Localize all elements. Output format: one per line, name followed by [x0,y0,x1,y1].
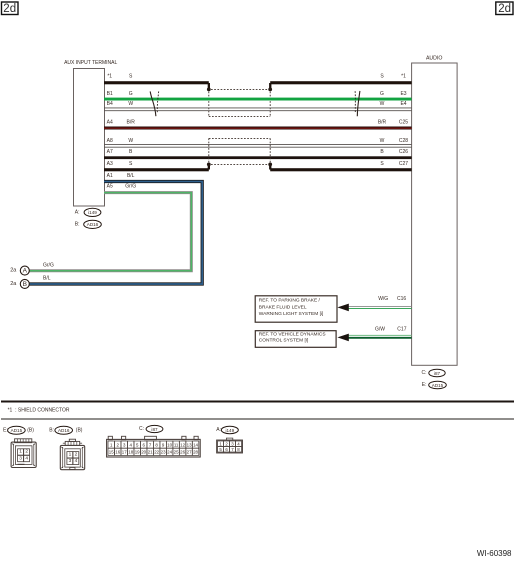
svg-text:S: S [129,161,133,167]
svg-text:4: 4 [75,458,78,464]
svg-text:A1: A1 [107,173,113,179]
svg-text:22: 22 [154,450,159,455]
svg-text:(B): (B) [27,427,34,433]
svg-text:6: 6 [142,442,145,447]
svg-text:25: 25 [174,450,179,455]
svg-text:8: 8 [237,447,240,452]
svg-text:5: 5 [219,447,222,452]
svg-text:B: B [380,149,384,155]
svg-text:B: B [129,149,133,155]
svg-text:1: 1 [110,442,113,447]
svg-text:G: G [380,91,384,97]
svg-text:2a: 2a [10,268,17,274]
svg-text:W: W [128,101,133,107]
svg-text:B:: B: [75,221,80,227]
svg-text:B:: B: [49,427,54,433]
svg-text:7: 7 [149,442,152,447]
svg-text:27: 27 [187,450,192,455]
svg-text:1: 1 [219,441,222,446]
svg-text:B/R: B/R [127,120,136,126]
svg-text:A:: A: [216,427,221,433]
svg-text:10: 10 [167,442,172,447]
svg-text:A8: A8 [107,138,113,144]
svg-text:Gr/G: Gr/G [43,262,54,268]
svg-text:A5: A5 [107,184,113,190]
svg-text:(B): (B) [76,427,83,433]
svg-text:B/L: B/L [127,173,135,179]
svg-text:A:: A: [75,209,80,215]
svg-text:4: 4 [25,455,28,461]
svg-text:C25: C25 [399,120,408,126]
svg-text:AUDIO: AUDIO [426,55,442,61]
svg-text:REF. TO VEHICLE DYNAMICS: REF. TO VEHICLE DYNAMICS [259,331,326,337]
svg-text:A7: A7 [107,149,113,155]
svg-text:WI-60398: WI-60398 [477,549,512,558]
svg-text:2: 2 [225,441,228,446]
svg-text:11: 11 [174,442,179,447]
svg-text:W: W [380,138,385,144]
svg-text:2: 2 [117,442,120,447]
svg-text:28: 28 [193,450,198,455]
svg-text:Gr/G: Gr/G [125,184,136,190]
svg-text:1: 1 [19,449,22,455]
svg-text:12: 12 [180,442,185,447]
svg-text:i87: i87 [434,371,441,376]
svg-text:15: 15 [109,450,114,455]
svg-text:7: 7 [231,447,234,452]
svg-text:A4: A4 [107,120,113,126]
svg-text:4: 4 [129,442,132,447]
svg-text:13: 13 [187,442,192,447]
svg-text:18: 18 [128,450,133,455]
svg-text:E:: E: [3,427,8,433]
svg-text:C28: C28 [399,138,408,144]
svg-text:3: 3 [69,458,72,464]
svg-text:C16: C16 [397,296,406,302]
svg-text:G/W: G/W [375,326,385,332]
svg-text:2: 2 [75,452,78,458]
svg-text:3: 3 [19,455,22,461]
svg-text:20: 20 [141,450,146,455]
svg-text:8: 8 [155,442,158,447]
svg-text:S: S [380,73,384,79]
svg-text:AD15: AD15 [432,383,444,388]
svg-text:B4: B4 [107,101,113,107]
svg-text:AD15: AD15 [11,428,23,433]
svg-text:C27: C27 [399,161,408,167]
svg-text:BRAKE FLUID LEVEL: BRAKE FLUID LEVEL [259,304,307,310]
svg-text:C26: C26 [399,149,408,155]
svg-text:W/G: W/G [378,296,388,302]
svg-text:*1: *1 [401,73,406,79]
svg-text:S: S [129,73,133,79]
svg-text:G: G [129,91,133,97]
svg-text:AD16: AD16 [58,428,70,433]
svg-text:9: 9 [162,442,165,447]
svg-text:AD16: AD16 [87,222,99,227]
svg-text:21: 21 [148,450,153,455]
svg-text:WARNING LIGHT SYSTEM [i]: WARNING LIGHT SYSTEM [i] [259,311,324,317]
svg-text:CONTROL SYSTEM [i]: CONTROL SYSTEM [i] [259,338,308,344]
svg-text:A: A [23,268,28,275]
svg-text:C:: C: [139,426,144,432]
svg-text:AUX INPUT TERMINAL: AUX INPUT TERMINAL [64,60,117,66]
svg-text:i149: i149 [225,428,234,433]
svg-text:REF. TO PARKING BRAKE /: REF. TO PARKING BRAKE / [259,298,321,304]
svg-text:2a: 2a [10,281,17,287]
svg-text:A3: A3 [107,161,113,167]
svg-text:W: W [380,101,385,107]
svg-text:19: 19 [135,450,140,455]
svg-text:3: 3 [231,441,234,446]
svg-text:24: 24 [167,450,172,455]
svg-text:i87: i87 [151,427,158,432]
svg-text:C:: C: [422,370,427,376]
svg-text:3: 3 [123,442,126,447]
svg-text:E3: E3 [400,91,406,97]
svg-text:S: S [380,161,384,167]
svg-text:B1: B1 [107,91,113,97]
svg-text:17: 17 [122,450,127,455]
svg-text:W: W [128,138,133,144]
svg-text:5: 5 [136,442,139,447]
svg-text:14: 14 [193,442,198,447]
svg-text:B: B [23,281,27,288]
svg-text:E4: E4 [400,101,406,107]
svg-text:26: 26 [180,450,185,455]
svg-text:B/R: B/R [378,120,387,126]
svg-text:i149: i149 [88,210,97,215]
svg-text:2d: 2d [498,3,511,15]
svg-text:B/L: B/L [43,276,51,282]
svg-text:1: 1 [69,452,72,458]
svg-text:16: 16 [115,450,120,455]
svg-text:23: 23 [161,450,166,455]
svg-text:6: 6 [225,447,228,452]
svg-text:*1 : SHIELD CONNECTOR: *1 : SHIELD CONNECTOR [8,408,70,414]
svg-text:4: 4 [237,441,240,446]
svg-text:2: 2 [25,449,28,455]
svg-text:C17: C17 [397,326,406,332]
svg-text:E:: E: [422,382,427,388]
svg-text:*1: *1 [107,73,112,79]
svg-text:2d: 2d [3,3,16,15]
